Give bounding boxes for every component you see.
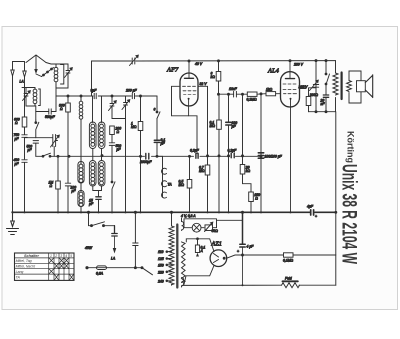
svg-text:LA: LA (111, 257, 116, 261)
trimmer capacitor on bus (130, 55, 139, 65)
capacitor 400pF (14, 158, 28, 212)
capacitor 10nF coupling (229, 87, 238, 97)
svg-text:0,8A: 0,8A (96, 272, 104, 276)
svg-text:+: + (315, 215, 317, 219)
tone capacitor + arrow (300, 80, 319, 90)
svg-text:1: 1 (50, 254, 52, 258)
svg-text:MΩ: MΩ (199, 169, 205, 173)
svg-text:3: 3 (60, 254, 62, 258)
trimmer capacitor C2 (23, 88, 31, 107)
capacitor 0,2uF 2 (228, 149, 238, 158)
svg-text:0,2µF: 0,2µF (228, 149, 238, 153)
transformer T3 primary (169, 211, 174, 285)
svg-text:MΩ: MΩ (210, 124, 216, 128)
capacitor 750pF (14, 127, 28, 159)
trimmer C4 (109, 96, 117, 119)
transformer T3 core (176, 225, 178, 288)
wire y=137.7 (25, 137, 53, 139)
resistor 0,5M (179, 155, 192, 212)
switch S4 (111, 180, 115, 212)
svg-text:150: 150 (158, 264, 164, 268)
IF transformer T1 right winding (98, 96, 105, 191)
svg-text:32 V: 32 V (200, 82, 208, 86)
antenna symbol (26, 55, 46, 74)
svg-text:4: 4 (65, 254, 67, 258)
coil L1 (54, 64, 64, 88)
svg-text:6: 6 (154, 108, 156, 112)
loudspeaker (357, 75, 373, 98)
svg-text:100/100 µF: 100/100 µF (265, 155, 283, 159)
svg-text:240: 240 (157, 279, 164, 283)
svg-text:1kΩ: 1kΩ (266, 87, 273, 91)
capacitor LA coupling (111, 226, 117, 261)
resistor 0,1M (210, 94, 222, 212)
resistor 1M bottom-left (49, 156, 61, 212)
capacitor 2000pF series (139, 154, 152, 164)
svg-text:220: 220 (157, 270, 164, 274)
wire AZ1 cathode to field (227, 255, 336, 258)
capacitor 100uF electrolytic (226, 94, 237, 212)
capacitor 500pF (27, 141, 39, 157)
coil L2 (26, 88, 40, 107)
capacitor 4uF reservoir (237, 211, 254, 285)
svg-text:MΩ: MΩ (131, 125, 137, 129)
svg-text:Mittel, Tag: Mittel, Tag (16, 259, 32, 263)
svg-text:4µF: 4µF (307, 205, 314, 209)
switch S2 (35, 120, 39, 138)
resistor 6k screen (211, 61, 221, 94)
wire left column x=13.5 (12, 76, 14, 212)
ground bus wire (13, 211, 336, 213)
wire grid line y=96 (56, 95, 157, 97)
svg-text:50Ω: 50Ω (212, 229, 219, 233)
resistor 1k grid stopper (266, 87, 276, 95)
transformer T3 secondary 4V top (182, 218, 184, 231)
svg-text:500µF: 500µF (45, 115, 56, 119)
svg-text:AF7: AF7 (166, 67, 179, 74)
svg-text:0,2MΩ: 0,2MΩ (247, 98, 258, 102)
wire trimmer bracket (112, 119, 126, 213)
svg-text:2000pF: 2000pF (139, 160, 152, 164)
IF transformer T1 left winding (89, 61, 98, 197)
trimmer capacitor C1 (56, 64, 72, 88)
svg-text:Schalter: Schalter (24, 254, 40, 258)
svg-text:10nF: 10nF (229, 87, 238, 91)
svg-text:4 µF: 4 µF (247, 245, 255, 249)
trimmer C5 (122, 96, 130, 119)
resistor 50 ohm adjustable (205, 222, 219, 233)
fuse 0,1A (195, 238, 205, 257)
svg-text:Ω: Ω (117, 130, 120, 134)
svg-text:4 V, 0,8 A: 4 V, 0,8 A (181, 214, 196, 218)
dial lamp (184, 219, 217, 232)
svg-text:45W: 45W (85, 246, 93, 250)
svg-text:kΩ: kΩ (211, 75, 216, 79)
resistor 1M mid (131, 96, 143, 212)
wire AF7 grid bracket (172, 86, 198, 153)
primary taps (157, 250, 172, 283)
capacitor 100pF (65, 156, 76, 212)
svg-text:Ω: Ω (50, 184, 53, 188)
tube AL4 (281, 61, 300, 213)
resistor 600 ohm (14, 77, 27, 127)
resistor 300 ohm column x=68 (59, 96, 70, 156)
switch table (15, 253, 75, 280)
oscillator coil L3 (78, 96, 84, 212)
svg-text:5: 5 (70, 254, 72, 258)
svg-text:Ω: Ω (15, 121, 18, 125)
switch S6 (154, 96, 161, 140)
wire lamp loop to minus rail (217, 219, 243, 221)
fuse 0,8A (86, 266, 142, 276)
mains switch S8 (87, 211, 114, 226)
svg-text:TA: TA (16, 275, 21, 279)
capacitor 9pF (91, 89, 98, 99)
svg-text:+: + (237, 250, 239, 254)
svg-text:Körting: Körting (346, 131, 356, 163)
resistor 20k decoupling (240, 94, 251, 192)
wire y=87.5 (22, 87, 35, 89)
resistor 0,1M bleeder (283, 253, 294, 263)
svg-text:MΩ: MΩ (179, 183, 185, 187)
svg-text:125: 125 (158, 257, 164, 261)
wire antenna to coil L1 (46, 63, 56, 65)
capacitor 0,2uF (cathode) (190, 149, 200, 159)
ground symbol (7, 212, 19, 234)
capacitor 20nF tone (320, 95, 329, 112)
resistor 150 ohm (249, 192, 260, 212)
capacitor 500uF series (36, 88, 56, 119)
capacitor 100/100uF dual electrolytic (258, 94, 282, 212)
capacitor 200pF (125, 89, 137, 99)
wire coil L2 down (34, 106, 37, 120)
antenna terminal 2 (23, 62, 26, 78)
wire switch line y=156.3 (36, 155, 261, 157)
resistor 0,2M (247, 92, 258, 102)
svg-text:Mittel, Nacht: Mittel, Nacht (16, 265, 36, 269)
svg-text:kΩ: kΩ (246, 169, 251, 173)
wire top supply bus 220V (92, 60, 336, 62)
svg-text:Unix 38 R 2104 W: Unix 38 R 2104 W (338, 164, 362, 264)
svg-text:0,1MΩ: 0,1MΩ (283, 259, 294, 263)
svg-text:1kΩ: 1kΩ (300, 86, 307, 90)
svg-text:0,2µF: 0,2µF (190, 149, 200, 153)
wire output stage rails (309, 61, 336, 112)
capacitor 15uF (89, 197, 101, 213)
output transformer T2 (333, 61, 361, 112)
capacitor 0,1uF black (154, 138, 165, 156)
svg-text:LA: LA (20, 80, 25, 84)
svg-text:Lang: Lang (16, 270, 24, 274)
svg-text:Ω: Ω (60, 107, 63, 111)
wire AF7 grid right + label 32V (198, 86, 208, 165)
switch S7 tone (325, 72, 329, 95)
svg-text:200Ω: 200Ω (309, 93, 319, 97)
tuning capacitor C3 (51, 135, 60, 157)
field coil Feld (282, 277, 300, 288)
svg-text:Feld: Feld (285, 277, 292, 281)
transformer T3 secondary 4V bottom (182, 278, 184, 288)
capacitor on bus to fuse line (133, 211, 138, 269)
svg-text:110: 110 (158, 250, 164, 254)
junction dots on ground bus (11, 211, 291, 213)
capacitor 4uF on bus (307, 205, 317, 219)
wire right column (335, 112, 337, 286)
switch S3 wavechange (42, 153, 51, 157)
voltage selector arm (142, 268, 153, 275)
svg-text:200 pF: 200 pF (125, 89, 137, 93)
capacitor 500pF 2 (109, 143, 121, 180)
svg-text:2: 2 (54, 254, 57, 258)
antenna terminal A (11, 62, 25, 77)
resistor 200 ohm (110, 126, 122, 143)
terminals TA (157, 156, 172, 198)
wire bottom rail (182, 284, 336, 286)
transformer T3 HT winding (182, 242, 186, 283)
resistor 200 ohm tone (306, 88, 318, 112)
svg-text:AL4: AL4 (267, 68, 280, 75)
junction dots on y=156.3 (57, 155, 59, 157)
svg-text:230 V: 230 V (293, 63, 304, 67)
wire AF7 anode line y=94.2 (219, 93, 281, 96)
svg-text:Ω: Ω (255, 197, 258, 201)
svg-text:40 V: 40 V (195, 62, 203, 66)
rectifier AZ1 (184, 239, 227, 285)
tube AF7 (180, 61, 198, 116)
band switch S1 contacts (36, 68, 54, 77)
